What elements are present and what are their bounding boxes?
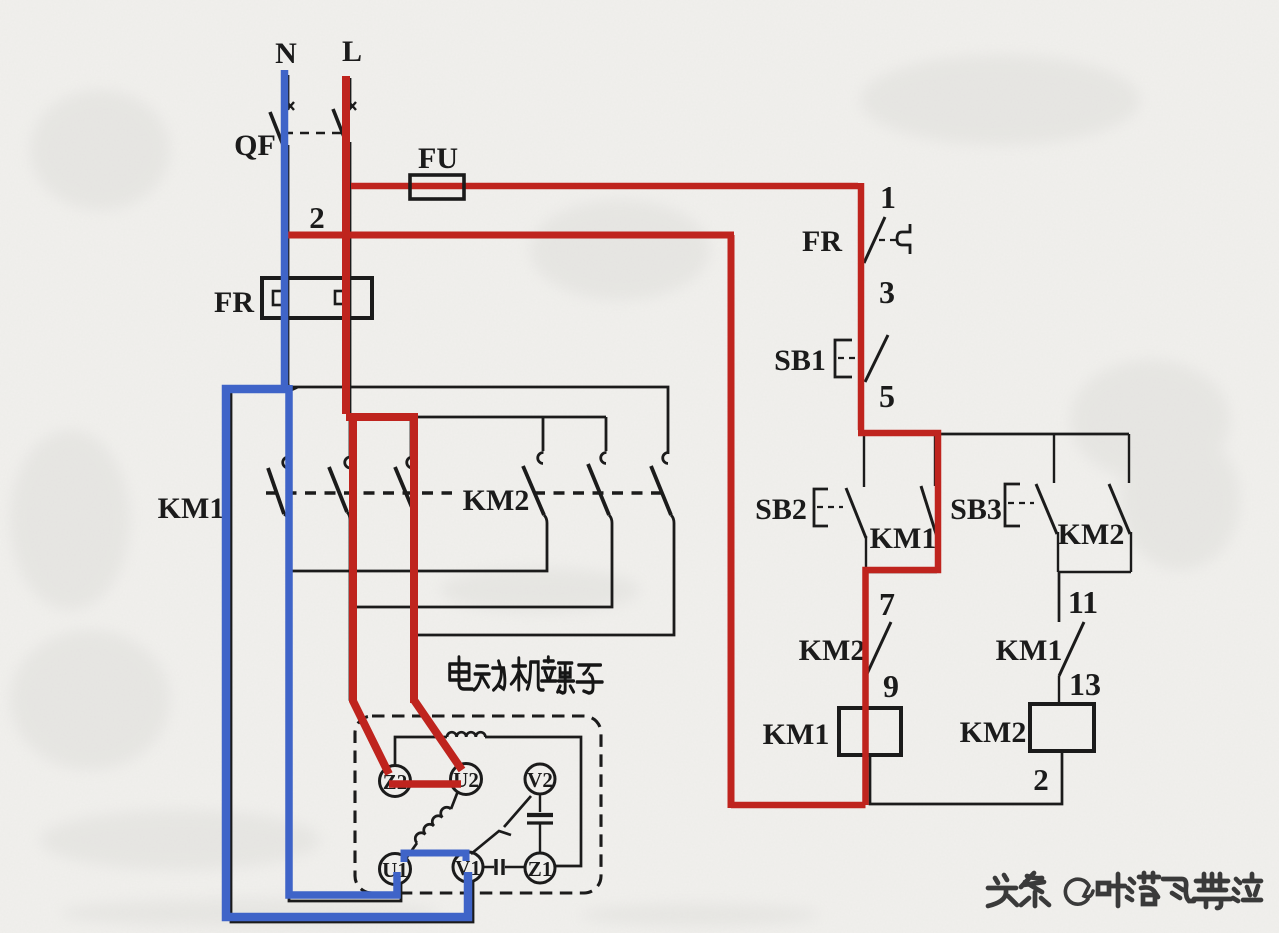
wire blue through KM1 pole1 [289,385,397,895]
wire red return 2 [281,235,734,808]
wire feed KM2 pole1 [542,417,545,451]
wire top edge to KM2 pole3 [286,387,668,454]
contact FR NC [864,217,896,263]
svg-text:N: N [275,37,297,70]
breaker QF pole L [333,102,356,142]
svg-text:KM1: KM1 [870,522,937,555]
wire blue bridge U1-V1 [404,853,466,862]
svg-text:11: 11 [1068,584,1098,620]
svg-text:FR: FR [802,225,842,258]
contact KM1 pole1 [268,457,289,514]
button SB2 [814,434,866,574]
svg-text:KM2: KM2 [799,634,866,667]
FR heater L [335,291,346,304]
breaker QF pole N [270,102,294,145]
wire red KM1 aux jog [731,433,938,805]
svg-text:13: 13 [1069,666,1101,702]
svg-text:FR: FR [214,286,254,319]
thermal relay FR box [262,278,372,318]
terminal V2 [525,764,555,794]
wire SB2 to KM2 NC [865,574,868,622]
wire L vertical top [349,78,352,109]
contact KM2 aux [1058,434,1131,572]
terminal U2 [451,764,482,795]
wire feed KM1 pole3 [410,417,413,456]
svg-text:7: 7 [879,586,895,622]
wire KM2 pole3 out [417,515,674,635]
contact KM1 interlock NC [1059,622,1084,704]
svg-text:KM1: KM1 [158,492,225,525]
contact KM1 pole3 [395,457,413,510]
node N branch [288,384,298,393]
wire N from QF to FR [287,145,290,388]
wire red FU feed [351,183,861,430]
wire KM1 pole1 out [284,514,401,901]
watermark 头条@叶落飞舞泣 [988,873,1261,908]
wire N vertical top [287,75,290,110]
svg-text:5: 5 [879,378,895,414]
wire KM1 pole3 out [413,510,462,768]
terminal Z1 [525,853,555,883]
contact KM1 pole2 [329,457,351,512]
inductor main winding diagonal [405,791,458,860]
terminal Z2 [380,766,411,797]
svg-text:2: 2 [1033,762,1049,797]
svg-text:1: 1 [880,179,896,215]
wire N left down [231,388,473,922]
button SB1 [835,335,888,382]
wire KM2 pole1 out [289,515,547,571]
svg-text:V2: V2 [527,768,553,792]
start winding top wire [395,737,447,766]
svg-text:KM2: KM2 [1058,518,1125,551]
motor terminal dashed box [355,716,601,893]
wire L jog to KM1 pole3 [350,416,606,419]
terminal U1 [380,854,411,885]
wire feed KM2 pole2 [605,417,608,451]
coil KM2 [1030,704,1094,751]
wire winding to Z1 [485,737,581,866]
svg-text:Z1: Z1 [528,857,553,881]
overload symbol FR [897,224,910,254]
linkage dashed KM2 [534,491,668,494]
contact KM2 pole1 [523,452,544,515]
svg-text:SB1: SB1 [774,344,826,377]
wire coil KM1 bottom [870,751,1062,804]
wire red L to Z2 [353,415,389,774]
svg-text:U2: U2 [453,768,479,792]
wire blue N main [281,70,289,385]
svg-text:KM2: KM2 [960,716,1027,749]
wire control L feed [351,186,861,188]
contact KM2 interlock NC [866,622,891,708]
svg-text:KM1: KM1 [763,718,830,751]
svg-text:2: 2 [309,200,325,235]
contact KM2 pole3 [651,452,671,515]
svg-text:KM2: KM2 [463,484,530,517]
button SB3 [1005,434,1058,572]
svg-text:SB2: SB2 [755,493,807,526]
wire red L main [342,76,350,414]
linkage dashed KM1 [266,491,452,494]
svg-text:3: 3 [879,274,895,310]
label motor terminals [450,657,603,693]
fuse FU [410,175,464,199]
centrifugal switch [471,796,531,854]
svg-text:QF: QF [234,129,276,162]
inductor start winding [447,732,485,737]
svg-text:SB3: SB3 [950,493,1002,526]
wire red bridge Z2-U2 [389,780,461,788]
svg-text:KM1: KM1 [996,634,1063,667]
breaker QF link dashed [284,132,344,134]
contact KM2 pole2 [588,452,609,515]
wire KM1 pole2 out [347,512,389,773]
svg-text:L: L [342,35,362,68]
FR heater N [273,291,284,305]
capacitor V2-Z1 [527,794,553,853]
wire red jog to U2 [346,417,462,770]
wire KM2 pole2 out [352,515,612,607]
node wire 5 rail [864,433,1129,436]
wire SB3 to KM1 NC [1058,572,1061,622]
contact KM1 aux [864,434,938,572]
control wire right vertical [860,187,862,433]
wire L from QF down [349,142,352,456]
svg-text:9: 9 [883,668,899,704]
coil KM1 [839,708,901,755]
svg-text:FU: FU [418,142,458,175]
terminal V1 [453,852,483,882]
wire blue N branch left [226,389,468,917]
capacitor V1-Z1 [484,859,525,875]
